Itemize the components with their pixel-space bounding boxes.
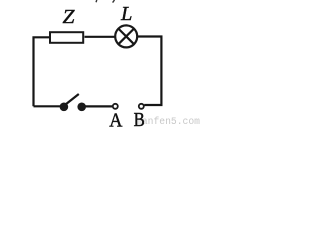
svg-text:manfen5.com: manfen5.com: [136, 116, 200, 127]
svg-text:L: L: [120, 3, 132, 25]
svg-text:A: A: [109, 109, 123, 128]
svg-text:B: B: [134, 109, 145, 128]
svg-text:Z: Z: [63, 7, 75, 28]
